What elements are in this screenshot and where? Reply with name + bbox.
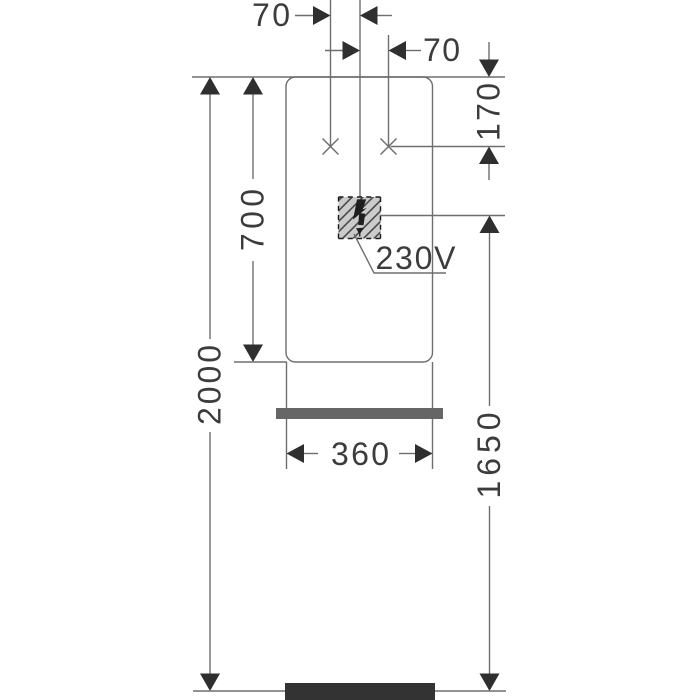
dimension 170 arrow down-pointing (top): [488, 42, 490, 60]
wire: extension line below mirror right x=432.5: [432, 362, 434, 469]
dimension 360 arrow left-pointing: [287, 444, 305, 463]
mirror outline (rounded rectangle 360x700): [286, 77, 433, 362]
wire: extension line from electrical box y=215.5: [381, 215, 506, 217]
wire: mirror bottom extension line left y=362: [234, 361, 287, 363]
node: fixing hole right (x mark): [381, 139, 397, 155]
dimension 70 (second row) leader line right: [406, 50, 421, 52]
dimension 70 (top row) arrow right-pointing: [313, 6, 331, 25]
wire: construction centerline right hole x=388.5: [388, 35, 390, 147]
wire: extension line from right hole y=146.5: [391, 146, 506, 148]
dimension 1650 arrow down-pointing (bottom): [489, 506, 491, 674]
shelf bar: [276, 408, 443, 419]
dimension 1650 arrow up-pointing (top): [480, 216, 500, 234]
dimension 70 (top row) arrow left-pointing: [360, 6, 378, 25]
dimension 360 arrow right-pointing: [399, 453, 415, 455]
dimension 70 (top row) leader line right: [378, 15, 393, 17]
svg-text:170: 170: [471, 83, 507, 141]
dimension 700 arrow up-pointing (top): [243, 77, 263, 95]
floor line: [193, 690, 506, 692]
node: fixing hole left (x mark): [323, 139, 339, 155]
wire: wall top line y=77: [192, 76, 505, 78]
svg-text:70: 70: [423, 32, 460, 68]
leader line to 230V label: [354, 234, 446, 273]
dimension 2000 arrow down-pointing (bottom): [209, 432, 211, 674]
dimension 70 (second row) arrow right-pointing: [343, 41, 361, 60]
svg-text:360: 360: [331, 436, 389, 472]
svg-text:700: 700: [235, 189, 271, 251]
dimension 70 (second row) arrow left-pointing: [389, 41, 407, 60]
svg-text:230V: 230V: [376, 240, 457, 276]
wire: construction centerline middle x=360: [359, 0, 361, 197]
wire: construction centerline left hole x=330.5: [330, 0, 332, 147]
dimension 70 (second row) leader line left: [325, 50, 343, 52]
dimension 2000 arrow up-pointing (top): [200, 77, 220, 95]
dimension 170 arrow up-pointing (bottom): [479, 147, 499, 165]
dimension 70 (top row) leader line left: [295, 15, 314, 17]
wire: extension line below mirror left x=287: [286, 362, 288, 469]
dimension 700 arrow down-pointing (bottom): [252, 261, 254, 345]
floor slab (dark bar): [285, 683, 435, 700]
electrical connection box (hatched): [328, 189, 396, 251]
lightning bolt symbol: [353, 199, 367, 219]
